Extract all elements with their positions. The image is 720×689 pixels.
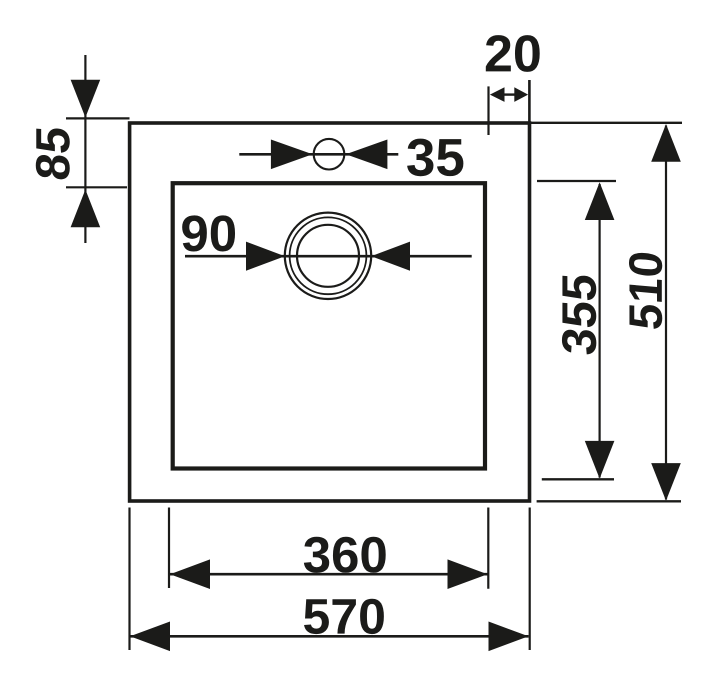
- dim 90 line: [185, 255, 472, 258]
- dim 85 top tick: [66, 117, 130, 119]
- dim 510 bottom ext line: [537, 500, 681, 502]
- drain circle inner: [297, 225, 359, 287]
- dim 355 top arrow: [585, 182, 615, 220]
- dim 570 line: [130, 635, 529, 638]
- dim 510 top arrow: [651, 124, 681, 162]
- dim 85 down arrow: [71, 80, 101, 118]
- dim 20 left arrow: [490, 87, 505, 102]
- dim 90 left arrow: [246, 242, 285, 271]
- dim 35 right arrow: [346, 140, 388, 170]
- outer rect sink outline: [130, 123, 530, 501]
- dim 510 vertical line: [665, 126, 667, 500]
- dim 570 right arrow: [489, 622, 529, 652]
- dim 360 right tick: [487, 508, 489, 589]
- dim 90 right arrow: [371, 242, 410, 271]
- label 20: [486, 35, 540, 72]
- dim 20 right tick: [528, 80, 531, 126]
- faucet hole circle: [314, 139, 345, 170]
- label 90: [182, 215, 235, 251]
- dim 35 line: [239, 153, 398, 156]
- dim 20 right arrow: [514, 87, 528, 102]
- dim 20 left tick: [487, 86, 489, 135]
- dim 355 bottom ext line: [542, 478, 614, 480]
- dim 85 bottom tick: [66, 186, 127, 188]
- dim 35 left arrow: [271, 140, 313, 170]
- dim 360 right arrow: [448, 559, 488, 589]
- drain circle outer: [285, 213, 371, 299]
- dim 360 left tick: [168, 508, 170, 589]
- label 35: [407, 139, 463, 177]
- dim 85 vertical line: [84, 55, 86, 243]
- drain circle middle: [290, 217, 367, 294]
- dim 570 right tick: [529, 508, 531, 651]
- label 360: [304, 537, 386, 573]
- label 85: [36, 127, 70, 181]
- dim 360 line: [170, 573, 488, 576]
- dim 355 top ext line: [537, 180, 616, 182]
- dim 570 left arrow: [130, 622, 170, 652]
- dim 355 bottom arrow: [585, 441, 615, 479]
- dim 85 up arrow: [71, 190, 101, 228]
- dim 510 top ext line: [528, 122, 683, 124]
- dim 510 bottom arrow: [651, 463, 681, 501]
- dim 355 vertical line: [598, 184, 600, 478]
- dim 570 left tick: [128, 508, 130, 651]
- inner rect bowl outline: [173, 183, 485, 468]
- label 355: [562, 274, 596, 355]
- label 510: [629, 252, 662, 330]
- dim 360 left arrow: [170, 559, 210, 589]
- label 570: [304, 599, 384, 634]
- dim 20 link line: [503, 93, 516, 95]
